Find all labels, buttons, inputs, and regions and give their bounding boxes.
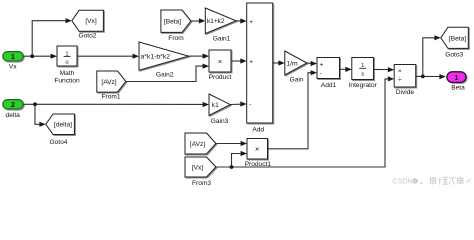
svg-text:CSDN: CSDN — [393, 179, 413, 186]
svg-text:1/m: 1/m — [286, 60, 298, 67]
svg-text:Product: Product — [209, 74, 232, 81]
wire From1 to Product in2 — [126, 64, 209, 82]
svg-text:-: - — [249, 101, 251, 108]
node junction on From3 wire — [230, 165, 234, 169]
svg-text:-: - — [320, 70, 322, 77]
inport 1 Vx — [3, 52, 23, 71]
from From2 [AVz] — [185, 133, 216, 154]
wire Integrator to Divide in1 — [374, 67, 395, 72]
watermark CSDN — [393, 177, 471, 186]
svg-text:[Beta]: [Beta] — [164, 18, 181, 25]
wire Gain2 to Product in1 — [189, 54, 210, 59]
wire From3 to long bottom run and Divide in2 — [216, 76, 394, 167]
wire From2 to Product1 in1 — [216, 141, 247, 146]
svg-text:÷: ÷ — [398, 77, 402, 84]
goto Goto4 [delta] — [46, 114, 75, 146]
svg-text:Vx: Vx — [9, 63, 17, 70]
node junction on Vx wire — [30, 54, 34, 58]
wire From to Gain1 — [191, 18, 205, 23]
wire Add1 to Integrator — [340, 67, 352, 72]
wire delta to Gain3 — [23, 102, 209, 107]
svg-text:From3: From3 — [192, 180, 211, 187]
svg-text:Gain: Gain — [290, 77, 304, 84]
svg-text:[Vx]: [Vx] — [85, 18, 97, 25]
wire Gain to Add1 in1 — [307, 61, 317, 66]
svg-text:[Vx]: [Vx] — [192, 164, 204, 171]
from From [Beta] — [161, 10, 191, 42]
wire Divide to outport Beta — [416, 74, 446, 79]
adder Add1 — [317, 58, 340, 89]
wire Math Function to Gain2 — [77, 54, 139, 59]
divide Divide — [394, 65, 416, 97]
svg-text:Divide: Divide — [396, 89, 415, 96]
svg-text:1: 1 — [11, 54, 15, 61]
wire Gain1 to Add in1 — [236, 18, 247, 23]
product Product — [209, 50, 232, 81]
adder Add — [247, 3, 273, 134]
svg-text:[AVz]: [AVz] — [101, 79, 116, 86]
wire Divide junction up to Goto3 — [423, 35, 441, 76]
wire From3 junction up to Product1 in2 — [232, 151, 248, 167]
svg-text:k1: k1 — [212, 102, 219, 109]
wire delta junction down to Goto4 — [35, 104, 46, 127]
svg-text:Goto2: Goto2 — [79, 32, 97, 39]
svg-text:k1+k2: k1+k2 — [207, 18, 225, 25]
node junction on Divide output — [421, 75, 425, 79]
svg-text:Integrator: Integrator — [349, 82, 378, 89]
svg-text:×: × — [218, 57, 222, 66]
svg-text:From: From — [168, 35, 184, 42]
from From3 [Vx] — [185, 157, 216, 187]
wire Vx to Math Function — [23, 54, 57, 59]
goto Goto2 [Vx] — [72, 10, 104, 39]
integrator Integrator 1/s — [349, 58, 378, 90]
svg-text:Gain1: Gain1 — [213, 35, 231, 42]
outport 1 Beta — [447, 72, 466, 92]
node junction on delta wire — [33, 102, 37, 106]
from From1 [AVz] — [97, 71, 126, 101]
svg-text:[AVz]: [AVz] — [190, 141, 205, 148]
wire Gain3 to Add in3 — [230, 101, 246, 106]
svg-text:×: × — [255, 145, 259, 154]
math function U1 1/u — [54, 46, 80, 85]
svg-text:Add: Add — [252, 127, 264, 134]
svg-text:Goto3: Goto3 — [445, 51, 463, 58]
wire Product to Add in2 — [231, 58, 247, 63]
wire Add to Gain — [273, 60, 285, 65]
svg-text:[delta]: [delta] — [54, 122, 72, 129]
wire Vx junction up to Goto2 — [32, 18, 72, 56]
wire Product1 to Add1 in2 — [268, 70, 318, 149]
svg-text:Gain3: Gain3 — [211, 118, 229, 125]
gain Gain3 k1 — [209, 94, 230, 125]
goto Goto3 [Beta] — [441, 27, 469, 58]
product Product1 — [245, 139, 272, 169]
svg-text:Add1: Add1 — [321, 82, 337, 89]
inport 2 delta — [3, 100, 23, 119]
svg-text:2: 2 — [11, 102, 15, 109]
svg-text:a*k1-b*k2: a*k1-b*k2 — [141, 54, 171, 61]
gain Gain2 a*k1-b*k2 — [139, 42, 189, 78]
svg-text:Beta: Beta — [451, 85, 465, 92]
svg-text:Math: Math — [60, 70, 75, 77]
svg-text:×: × — [398, 68, 402, 75]
svg-text:+: + — [249, 19, 253, 26]
svg-text:Function: Function — [54, 78, 80, 85]
svg-text:+: + — [249, 58, 253, 65]
svg-text:Goto4: Goto4 — [50, 139, 68, 146]
svg-text:[Beta]: [Beta] — [449, 35, 466, 42]
svg-text:+: + — [320, 61, 324, 68]
svg-text:Product1: Product1 — [245, 161, 272, 168]
svg-text:Gain2: Gain2 — [156, 71, 174, 78]
svg-text:u: u — [65, 59, 68, 65]
svg-text:delta: delta — [6, 112, 21, 119]
gain Gain 1/m — [285, 51, 307, 84]
gain Gain1 k1+k2 — [205, 8, 236, 42]
svg-text:1: 1 — [455, 75, 459, 82]
svg-text:s: s — [361, 71, 364, 77]
svg-text:From1: From1 — [101, 94, 120, 101]
